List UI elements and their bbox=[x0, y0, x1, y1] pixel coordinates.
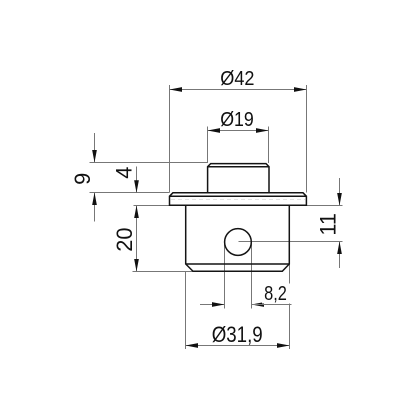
svg-text:Ø42: Ø42 bbox=[220, 67, 254, 90]
svg-text:9: 9 bbox=[70, 173, 95, 185]
svg-text:Ø31,9: Ø31,9 bbox=[212, 322, 263, 347]
svg-text:8,2: 8,2 bbox=[264, 282, 287, 305]
svg-text:Ø19: Ø19 bbox=[220, 108, 254, 131]
svg-text:20: 20 bbox=[112, 227, 137, 251]
svg-text:4: 4 bbox=[112, 167, 137, 179]
svg-text:11: 11 bbox=[315, 213, 340, 236]
